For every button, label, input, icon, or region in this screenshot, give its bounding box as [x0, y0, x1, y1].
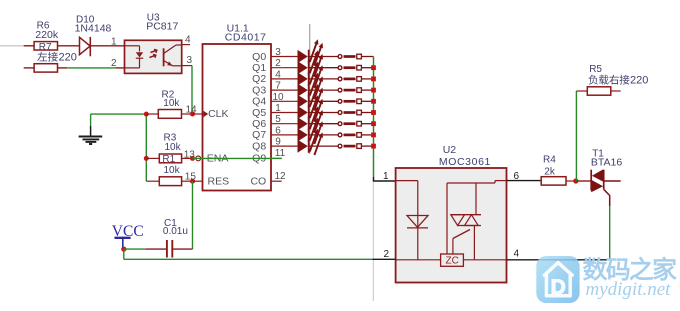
svg-text:ZC: ZC — [446, 256, 459, 267]
svg-text:0.01u: 0.01u — [163, 226, 188, 237]
wire bus to U2.1 — [373, 177, 396, 181]
watermark 数码之家 — [583, 257, 676, 280]
svg-text:Q4: Q4 — [252, 96, 266, 108]
pin name Q6 — [252, 118, 266, 130]
label PC817 — [146, 21, 178, 33]
label R3 — [164, 133, 177, 144]
pin name Q8 — [252, 140, 266, 152]
svg-text:RES: RES — [208, 175, 230, 187]
wire — [576, 180, 591, 182]
jumper W6 — [310, 110, 374, 115]
junction — [371, 88, 376, 93]
svg-text:Q8: Q8 — [252, 140, 266, 152]
opto-isolator U3 PC817 — [125, 40, 182, 73]
pin name Q0 — [252, 51, 266, 63]
svg-text:9: 9 — [275, 137, 281, 148]
wire RES to C1 — [192, 181, 194, 249]
LED D3 — [298, 62, 324, 88]
label R5 — [589, 64, 602, 75]
pin 5 Q6 stub — [271, 114, 298, 125]
capacitor C1 0.01u — [146, 240, 193, 258]
svg-text:10: 10 — [272, 92, 284, 103]
LED D9 — [298, 129, 324, 155]
svg-text:Q7: Q7 — [252, 129, 266, 141]
LED D5 — [298, 84, 324, 110]
node VCC — [121, 247, 126, 252]
node — [144, 112, 149, 117]
svg-text:CO: CO — [250, 175, 266, 187]
svg-text:4: 4 — [514, 248, 520, 259]
label R6 — [37, 21, 50, 32]
svg-text:Q0: Q0 — [252, 51, 266, 63]
jumper W9 — [310, 144, 374, 149]
ground — [79, 137, 103, 145]
pin 14 CLK — [186, 104, 203, 115]
pin 1 Q5 stub — [271, 103, 298, 114]
svg-text:R7: R7 — [39, 42, 52, 53]
junction — [371, 133, 376, 138]
pin name RES — [208, 175, 230, 187]
svg-text:2k: 2k — [544, 166, 556, 177]
wire — [115, 67, 124, 69]
wire — [90, 45, 124, 47]
triac T1 BTA16 — [591, 169, 610, 206]
svg-text:R1: R1 — [162, 154, 175, 165]
pin name Q9 — [252, 153, 266, 165]
svg-text:4: 4 — [275, 69, 281, 80]
svg-text:Q5: Q5 — [252, 107, 266, 119]
svg-text:Q6: Q6 — [252, 118, 266, 130]
svg-text:220k: 220k — [35, 29, 59, 41]
svg-text:PC817: PC817 — [146, 21, 178, 33]
pin name CLK — [208, 108, 228, 120]
junction — [371, 65, 376, 70]
svg-text:10k: 10k — [164, 165, 181, 176]
jumper W3 — [310, 77, 374, 82]
pin name Q3 — [252, 84, 266, 96]
label ZC — [446, 256, 459, 267]
label 10k (R3) — [165, 142, 182, 153]
svg-text:3: 3 — [275, 47, 281, 58]
label C1 — [164, 218, 177, 229]
label T1 — [592, 148, 604, 159]
pin 4 Q2 stub — [271, 69, 298, 80]
label 2k — [544, 166, 556, 177]
label D10 — [76, 14, 95, 25]
resistor R5 — [576, 87, 620, 95]
pin 11 Q9 stub — [271, 148, 286, 159]
pin 1 — [383, 171, 389, 182]
wire ENA-Q9 net — [193, 157, 282, 159]
wire LED bus — [373, 57, 375, 178]
pin 15 RES — [185, 172, 203, 183]
svg-text:220: 220 — [59, 52, 77, 64]
label 0.01u — [163, 226, 188, 237]
svg-text:R4: R4 — [543, 155, 556, 166]
LED D8 — [298, 118, 324, 144]
pin 7 Q3 stub — [271, 81, 298, 92]
svg-text:1: 1 — [111, 37, 117, 48]
jumper W1 — [310, 54, 374, 59]
label U2 — [443, 144, 457, 156]
svg-text:R5: R5 — [589, 64, 602, 75]
wire — [124, 248, 146, 250]
junction — [371, 121, 376, 126]
svg-text:1: 1 — [383, 171, 389, 182]
resistor R (lower left) — [34, 64, 57, 72]
svg-text:15: 15 — [185, 172, 197, 183]
svg-text:2: 2 — [275, 58, 281, 69]
pin 1 — [111, 37, 117, 48]
graphic gray line vertical — [309, 24, 311, 154]
pin name ENA — [207, 153, 229, 165]
svg-text:14: 14 — [186, 104, 198, 115]
svg-text:12: 12 — [274, 171, 286, 182]
pin name CO — [250, 175, 266, 187]
clock marker CLK — [203, 111, 208, 117]
svg-text:5: 5 — [275, 114, 281, 125]
pin 4 — [182, 35, 191, 46]
wire — [24, 45, 34, 47]
wire U3.3 to CLK — [191, 66, 193, 114]
resistor R 10k (RES row) — [146, 177, 192, 186]
label U1.1 — [227, 22, 249, 34]
wire gray stub net — [0, 45, 24, 47]
jumper W8 — [310, 133, 374, 138]
pin 12 CO stub — [271, 171, 286, 182]
pin 13 ENA — [184, 149, 196, 160]
svg-text:mydigit.net: mydigit.net — [586, 279, 672, 300]
LED D7 — [298, 106, 324, 132]
node ENA — [190, 156, 195, 161]
label 10k (R2) — [163, 98, 180, 109]
pin 2 Q1 stub — [271, 58, 298, 69]
svg-text:MOC3061: MOC3061 — [439, 156, 491, 168]
wire U2.4 run — [507, 259, 610, 261]
svg-text:Q3: Q3 — [252, 84, 266, 96]
watermark mydigit.net — [586, 279, 672, 300]
ic U1.1 CD4017 box — [203, 44, 272, 191]
svg-text:11: 11 — [275, 148, 286, 159]
jumper W4 — [310, 88, 374, 93]
diode D10 1N4148 — [80, 37, 91, 56]
node — [144, 156, 149, 161]
resistor R1 10k (ENA row) — [146, 154, 192, 165]
pin name Q7 — [252, 129, 266, 141]
label MOC3061 — [439, 156, 491, 168]
label U3 — [147, 12, 160, 23]
svg-text:4: 4 — [185, 35, 191, 46]
label 10k (R1) — [164, 165, 181, 176]
junction — [371, 77, 376, 82]
LED D1 — [298, 39, 324, 65]
opto-triac U2 MOC3061 — [396, 168, 507, 283]
svg-text:2: 2 — [111, 58, 117, 69]
label 左接220 — [37, 52, 77, 64]
svg-text:Q2: Q2 — [252, 73, 266, 85]
wire — [67, 67, 115, 69]
svg-text:CD4017: CD4017 — [225, 31, 267, 43]
resistor R6 (R7 in box) — [34, 42, 57, 53]
pin 4 — [514, 248, 520, 259]
pin 2 — [111, 58, 117, 69]
power VCC — [112, 223, 144, 249]
wire to U2.2 — [372, 258, 395, 260]
label BTA16 — [591, 157, 622, 169]
wire VCC rail — [124, 249, 373, 259]
pin 9 Q8 stub — [271, 137, 298, 148]
label R2 — [162, 89, 175, 100]
jumper W2 — [310, 65, 374, 70]
svg-text:3: 3 — [187, 55, 193, 66]
resistor R4 2k — [541, 177, 576, 185]
pin name Q4 — [252, 96, 266, 108]
jumper W5 — [310, 99, 374, 104]
svg-text:2: 2 — [384, 249, 390, 260]
svg-text:7: 7 — [275, 81, 281, 92]
wire vertical bus — [145, 114, 147, 181]
label 负载右接220 — [589, 75, 649, 87]
LED D2 — [298, 50, 324, 76]
svg-text:1N4148: 1N4148 — [75, 22, 112, 34]
label 1N4148 — [75, 22, 112, 34]
wire T1 gate — [609, 206, 611, 260]
LED D6 — [298, 95, 324, 121]
wire R5 drop — [575, 91, 577, 181]
watermark logo — [536, 256, 579, 303]
graphic gray line below — [372, 182, 374, 301]
wire — [24, 67, 34, 69]
wire ground stem — [90, 114, 92, 136]
enable bubble ENA — [196, 156, 201, 161]
node gate — [573, 178, 578, 183]
junction — [371, 110, 376, 115]
wire ground horiz — [91, 113, 147, 115]
pin name Q1 — [252, 62, 266, 74]
resistor R2 10k — [146, 110, 192, 119]
wire U2.6 to R4 — [507, 180, 542, 182]
svg-text:CLK: CLK — [208, 108, 228, 120]
wire — [58, 45, 80, 47]
junction — [371, 144, 376, 149]
svg-text:6: 6 — [275, 125, 281, 136]
svg-text:220: 220 — [630, 75, 648, 87]
label 220k — [35, 29, 59, 41]
svg-text:1: 1 — [275, 103, 281, 114]
svg-text:D: D — [551, 276, 566, 299]
wire T1 MT2 — [604, 180, 621, 182]
pin 2 — [384, 249, 390, 260]
pin name Q2 — [252, 73, 266, 85]
pin name Q5 — [252, 107, 266, 119]
junction — [371, 99, 376, 104]
jumper W7 — [310, 121, 374, 126]
svg-text:U2: U2 — [443, 144, 457, 156]
LED D4 — [298, 73, 324, 99]
node RES — [190, 179, 195, 184]
label R4 — [543, 155, 556, 166]
wire — [58, 67, 68, 69]
pin 3 — [182, 55, 193, 66]
pin 6 Q7 stub — [271, 125, 298, 136]
svg-text:10k: 10k — [163, 98, 180, 109]
pin 6 — [514, 171, 520, 182]
label CD4017 — [225, 31, 267, 43]
svg-text:Q1: Q1 — [252, 62, 266, 74]
svg-text:BTA16: BTA16 — [591, 157, 622, 169]
pin 10 Q4 stub — [271, 92, 298, 103]
node CLK — [190, 112, 195, 117]
svg-text:10k: 10k — [165, 142, 182, 153]
pin 3 Q0 stub — [271, 47, 298, 58]
